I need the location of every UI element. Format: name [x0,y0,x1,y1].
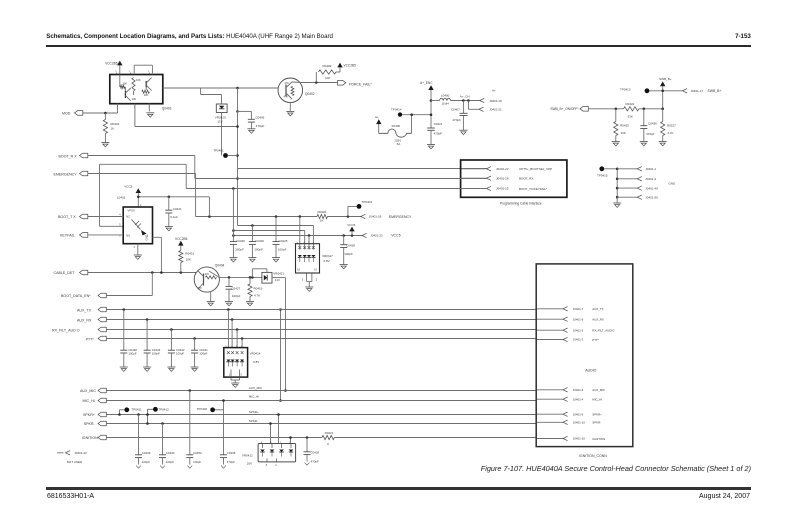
svg-text:A2: A2 [297,269,301,272]
svg-text:R0517: R0517 [667,124,676,128]
svg-text:C0441: C0441 [173,207,182,211]
svg-text:BOOT_R X: BOOT_R X [59,154,78,158]
svg-text:C0428: C0428 [346,244,355,248]
svg-text:AUX_TX: AUX_TX [592,307,603,311]
svg-text:J0401-21: J0401-21 [489,108,502,112]
svg-text:100pF: 100pF [193,460,201,464]
svg-text:100pF: 100pF [142,460,150,464]
svg-text:J0401-4: J0401-4 [573,397,584,401]
svg-text:10K: 10K [122,81,127,85]
svg-text:J0401-5: J0401-5 [573,328,584,332]
svg-text:SWB_B+: SWB_B+ [659,77,672,81]
svg-text:100pF: 100pF [152,352,160,356]
svg-text:TP0401: TP0401 [213,148,224,152]
svg-text:NO: NO [126,234,130,238]
svg-text:BOOT_TX/KEYFAIL*: BOOT_TX/KEYFAIL* [519,187,548,191]
svg-text:EMERGENCY: EMERGENCY [389,215,412,219]
svg-text:J0401-50: J0401-50 [645,196,658,200]
svg-text:IGNITION: IGNITION [82,436,98,440]
svg-text:100pF: 100pF [232,294,241,298]
svg-text:100pF: 100pF [254,248,263,252]
svg-text:2: 2 [316,279,318,282]
svg-text:J0401-25: J0401-25 [496,187,509,191]
svg-text:AUX_MIC: AUX_MIC [80,389,96,393]
svg-text:VCC5: VCC5 [124,184,132,188]
svg-text:VCC2B5: VCC2B5 [175,237,188,241]
svg-text:AUX_RX: AUX_RX [592,318,604,322]
svg-text:1K: 1K [111,127,115,131]
svg-text:C0440: C0440 [166,451,175,455]
svg-text:6: 6 [119,235,121,237]
svg-text:J0401-26: J0401-26 [496,176,509,180]
svg-text:VPOS: VPOS [128,208,135,212]
svg-text:33K: 33K [628,114,633,118]
svg-text:EMERGENCY: EMERGENCY [54,173,78,177]
svg-text:J0401-17: J0401-17 [691,89,704,93]
svg-text:100pF: 100pF [344,252,353,256]
svg-text:C0427: C0427 [231,286,240,290]
svg-text:VR0414: VR0414 [250,351,261,355]
svg-text:AUDIO: AUDIO [585,369,596,373]
svg-text:KEYFAIL: KEYFAIL [60,234,75,238]
svg-text:C0425: C0425 [279,239,288,243]
svg-text:1: 1 [115,71,117,73]
svg-text:R0421: R0421 [325,431,334,435]
svg-text:470pF: 470pF [227,460,235,464]
svg-text:100pF: 100pF [128,352,136,356]
svg-text:RX_FILT_AUD O: RX_FILT_AUD O [52,328,80,332]
svg-text:BOOT_RX: BOOT_RX [519,177,533,181]
svg-text:Q0402: Q0402 [305,92,315,96]
svg-text:C0430: C0430 [236,239,245,243]
svg-text:A+_ENC: A+_ENC [420,81,433,85]
svg-text:6.8V: 6.8V [253,360,259,364]
svg-text:10K: 10K [325,76,330,80]
svg-text:TP0403: TP0403 [362,200,373,204]
svg-text:AUX_MIC: AUX_MIC [249,386,263,390]
svg-text:VCC5: VCC5 [347,223,355,227]
svg-text:TP0411: TP0411 [131,407,142,411]
svg-text:4.7K: 4.7K [667,131,673,135]
svg-text:SPKR+: SPKR+ [592,413,602,417]
svg-text:C0429: C0429 [255,239,264,243]
svg-text:R0409: R0409 [323,64,332,68]
svg-text:GND: GND [669,181,677,185]
svg-text:10K: 10K [186,258,191,262]
svg-text:R0431: R0431 [185,251,194,255]
svg-text:SPKR+: SPKR+ [83,413,95,417]
svg-text:J0401-1: J0401-1 [645,167,656,171]
svg-text:5: 5 [241,375,243,377]
svg-text:F0400: F0400 [392,124,401,128]
svg-text:47K: 47K [198,287,203,290]
svg-text:L0400: L0400 [441,94,450,98]
svg-text:IGNITION_CONN: IGNITION_CONN [579,454,607,458]
svg-text:11V: 11V [275,278,280,282]
svg-text:J0401-22: J0401-22 [496,167,509,171]
svg-text:CABLE_DET: CABLE_DET [54,271,76,275]
svg-text:47K: 47K [284,96,289,99]
svg-text:FORCE_FAIL*: FORCE_FAIL* [349,82,372,86]
svg-text:MIC_HI: MIC_HI [83,399,95,403]
svg-text:OPT5+_BOOTSEL_VPP: OPT5+_BOOTSEL_VPP [519,167,552,171]
svg-text:VCC2B5: VCC2B5 [105,62,118,66]
svg-text:470pF: 470pF [311,459,319,463]
svg-text:1K: 1K [320,219,324,223]
svg-text:TP0412: TP0412 [158,407,169,411]
svg-text:VR0421: VR0421 [273,271,284,275]
svg-text:Q0403: Q0403 [162,107,172,111]
svg-text:IGNITION: IGNITION [592,437,605,441]
svg-text:J0401-2: J0401-2 [645,177,656,181]
svg-text:10K: 10K [136,78,141,82]
svg-text:TP0415: TP0415 [597,173,608,177]
svg-text:RX_FILT_AUDIO: RX_FILT_AUDIO [592,329,615,333]
svg-text:100pF: 100pF [278,248,287,252]
svg-text:VCC5: VCC5 [391,233,400,237]
svg-text:470pF: 470pF [434,131,443,135]
svg-text:R0404: R0404 [318,210,327,214]
svg-text:MIC_HI: MIC_HI [249,394,259,398]
svg-text:J0401-10: J0401-10 [573,421,585,425]
svg-text:4.7K: 4.7K [254,294,260,298]
svg-text:R0402: R0402 [111,122,120,126]
svg-text:J0401-7: J0401-7 [573,307,584,311]
svg-text:C0426: C0426 [311,450,320,454]
svg-text:9.1uF: 9.1uF [170,215,178,219]
svg-text:100pF: 100pF [176,352,184,356]
svg-text:J0401-20: J0401-20 [573,437,585,441]
svg-text:SWB_B+_ON/OFF*: SWB_B+_ON/OFF* [550,107,579,111]
svg-text:J0401-23: J0401-23 [370,234,383,238]
svg-text:R0425: R0425 [620,124,629,128]
svg-text:J0401-49: J0401-49 [645,186,658,190]
svg-text:SPKR-: SPKR- [592,421,601,425]
svg-text:C0438: C0438 [227,451,236,455]
svg-text:Q0404: Q0404 [215,263,225,267]
svg-text:L0401: L0401 [117,195,126,199]
svg-text:R0419: R0419 [254,286,263,290]
svg-text:C0439: C0439 [142,451,151,455]
svg-text:470pF: 470pF [256,124,265,128]
svg-text:PTT*: PTT* [86,337,95,341]
svg-text:1: 1 [129,71,131,73]
svg-text:A+_CH: A+_CH [460,95,470,99]
svg-text:A1: A1 [314,269,318,272]
svg-text:100pF: 100pF [199,352,207,356]
svg-text:MIC_HI: MIC_HI [592,398,602,402]
svg-text:Programming Cable Interface: Programming Cable Interface [500,201,542,205]
svg-text:6.8V: 6.8V [324,259,330,263]
svg-text:5A: 5A [397,142,401,146]
svg-text:J0401-6: J0401-6 [573,388,584,392]
svg-text:VCC2B5: VCC2B5 [344,64,357,68]
svg-text:11V: 11V [218,119,223,123]
svg-text:10K: 10K [132,97,137,101]
svg-text:TP0414: TP0414 [391,108,402,112]
svg-text:10K: 10K [621,131,626,135]
svg-text:TP0413: TP0413 [620,88,631,92]
svg-text:AUX_RX: AUX_RX [77,318,92,322]
svg-text:100pF: 100pF [235,248,244,252]
svg-text:3: 3 [134,247,136,249]
svg-text:PTT*: PTT* [592,338,599,342]
svg-text:J0401-19: J0401-19 [489,99,502,103]
svg-text:TP0402: TP0402 [197,407,208,411]
svg-text:10uH: 10uH [442,102,449,106]
svg-text:1: 1 [147,235,149,237]
svg-text:VR0412: VR0412 [242,454,253,458]
svg-text:SWB_B+: SWB_B+ [708,89,722,93]
svg-text:1: 1 [148,71,150,73]
svg-text:VR0417: VR0417 [322,254,333,258]
svg-text:BOOT_DATA_EN*: BOOT_DATA_EN* [61,294,91,298]
svg-text:A+: A+ [492,89,496,93]
svg-text:10K: 10K [144,93,149,97]
svg-text:MOD: MOD [62,111,71,115]
svg-text:AUX_TX: AUX_TX [77,308,92,312]
svg-text:C0407: C0407 [451,107,460,111]
svg-text:SPKR-: SPKR- [249,419,258,423]
svg-text:47K: 47K [285,82,290,85]
svg-text:R0422: R0422 [626,102,635,106]
svg-text:47K: 47K [205,273,210,276]
svg-text:470pF: 470pF [646,132,655,136]
svg-text:J0401-9: J0401-9 [573,317,584,321]
svg-text:J0401-18: J0401-18 [369,215,382,219]
svg-text:C0405: C0405 [256,116,265,120]
svg-text:C0436: C0436 [648,121,657,125]
svg-text:C0421: C0421 [434,122,443,126]
svg-text:NC: NC [126,214,130,218]
svg-text:A+: A+ [375,115,379,119]
svg-text:5: 5 [302,279,304,282]
svg-text:SPKR+: SPKR+ [249,410,259,414]
svg-text:BOOT_T X: BOOT_T X [58,215,76,219]
svg-text:C0450: C0450 [193,451,202,455]
svg-text:J0401-3: J0401-3 [573,338,584,342]
svg-text:0: 0 [327,442,329,446]
svg-text:470pF: 470pF [452,118,461,122]
svg-text:AUX_MIC: AUX_MIC [592,388,605,392]
svg-text:J0401-43: J0401-43 [74,451,87,455]
svg-text:J0401-9: J0401-9 [573,412,584,416]
svg-text:100pF: 100pF [166,460,174,464]
svg-text:SPKR-: SPKR- [84,422,96,426]
